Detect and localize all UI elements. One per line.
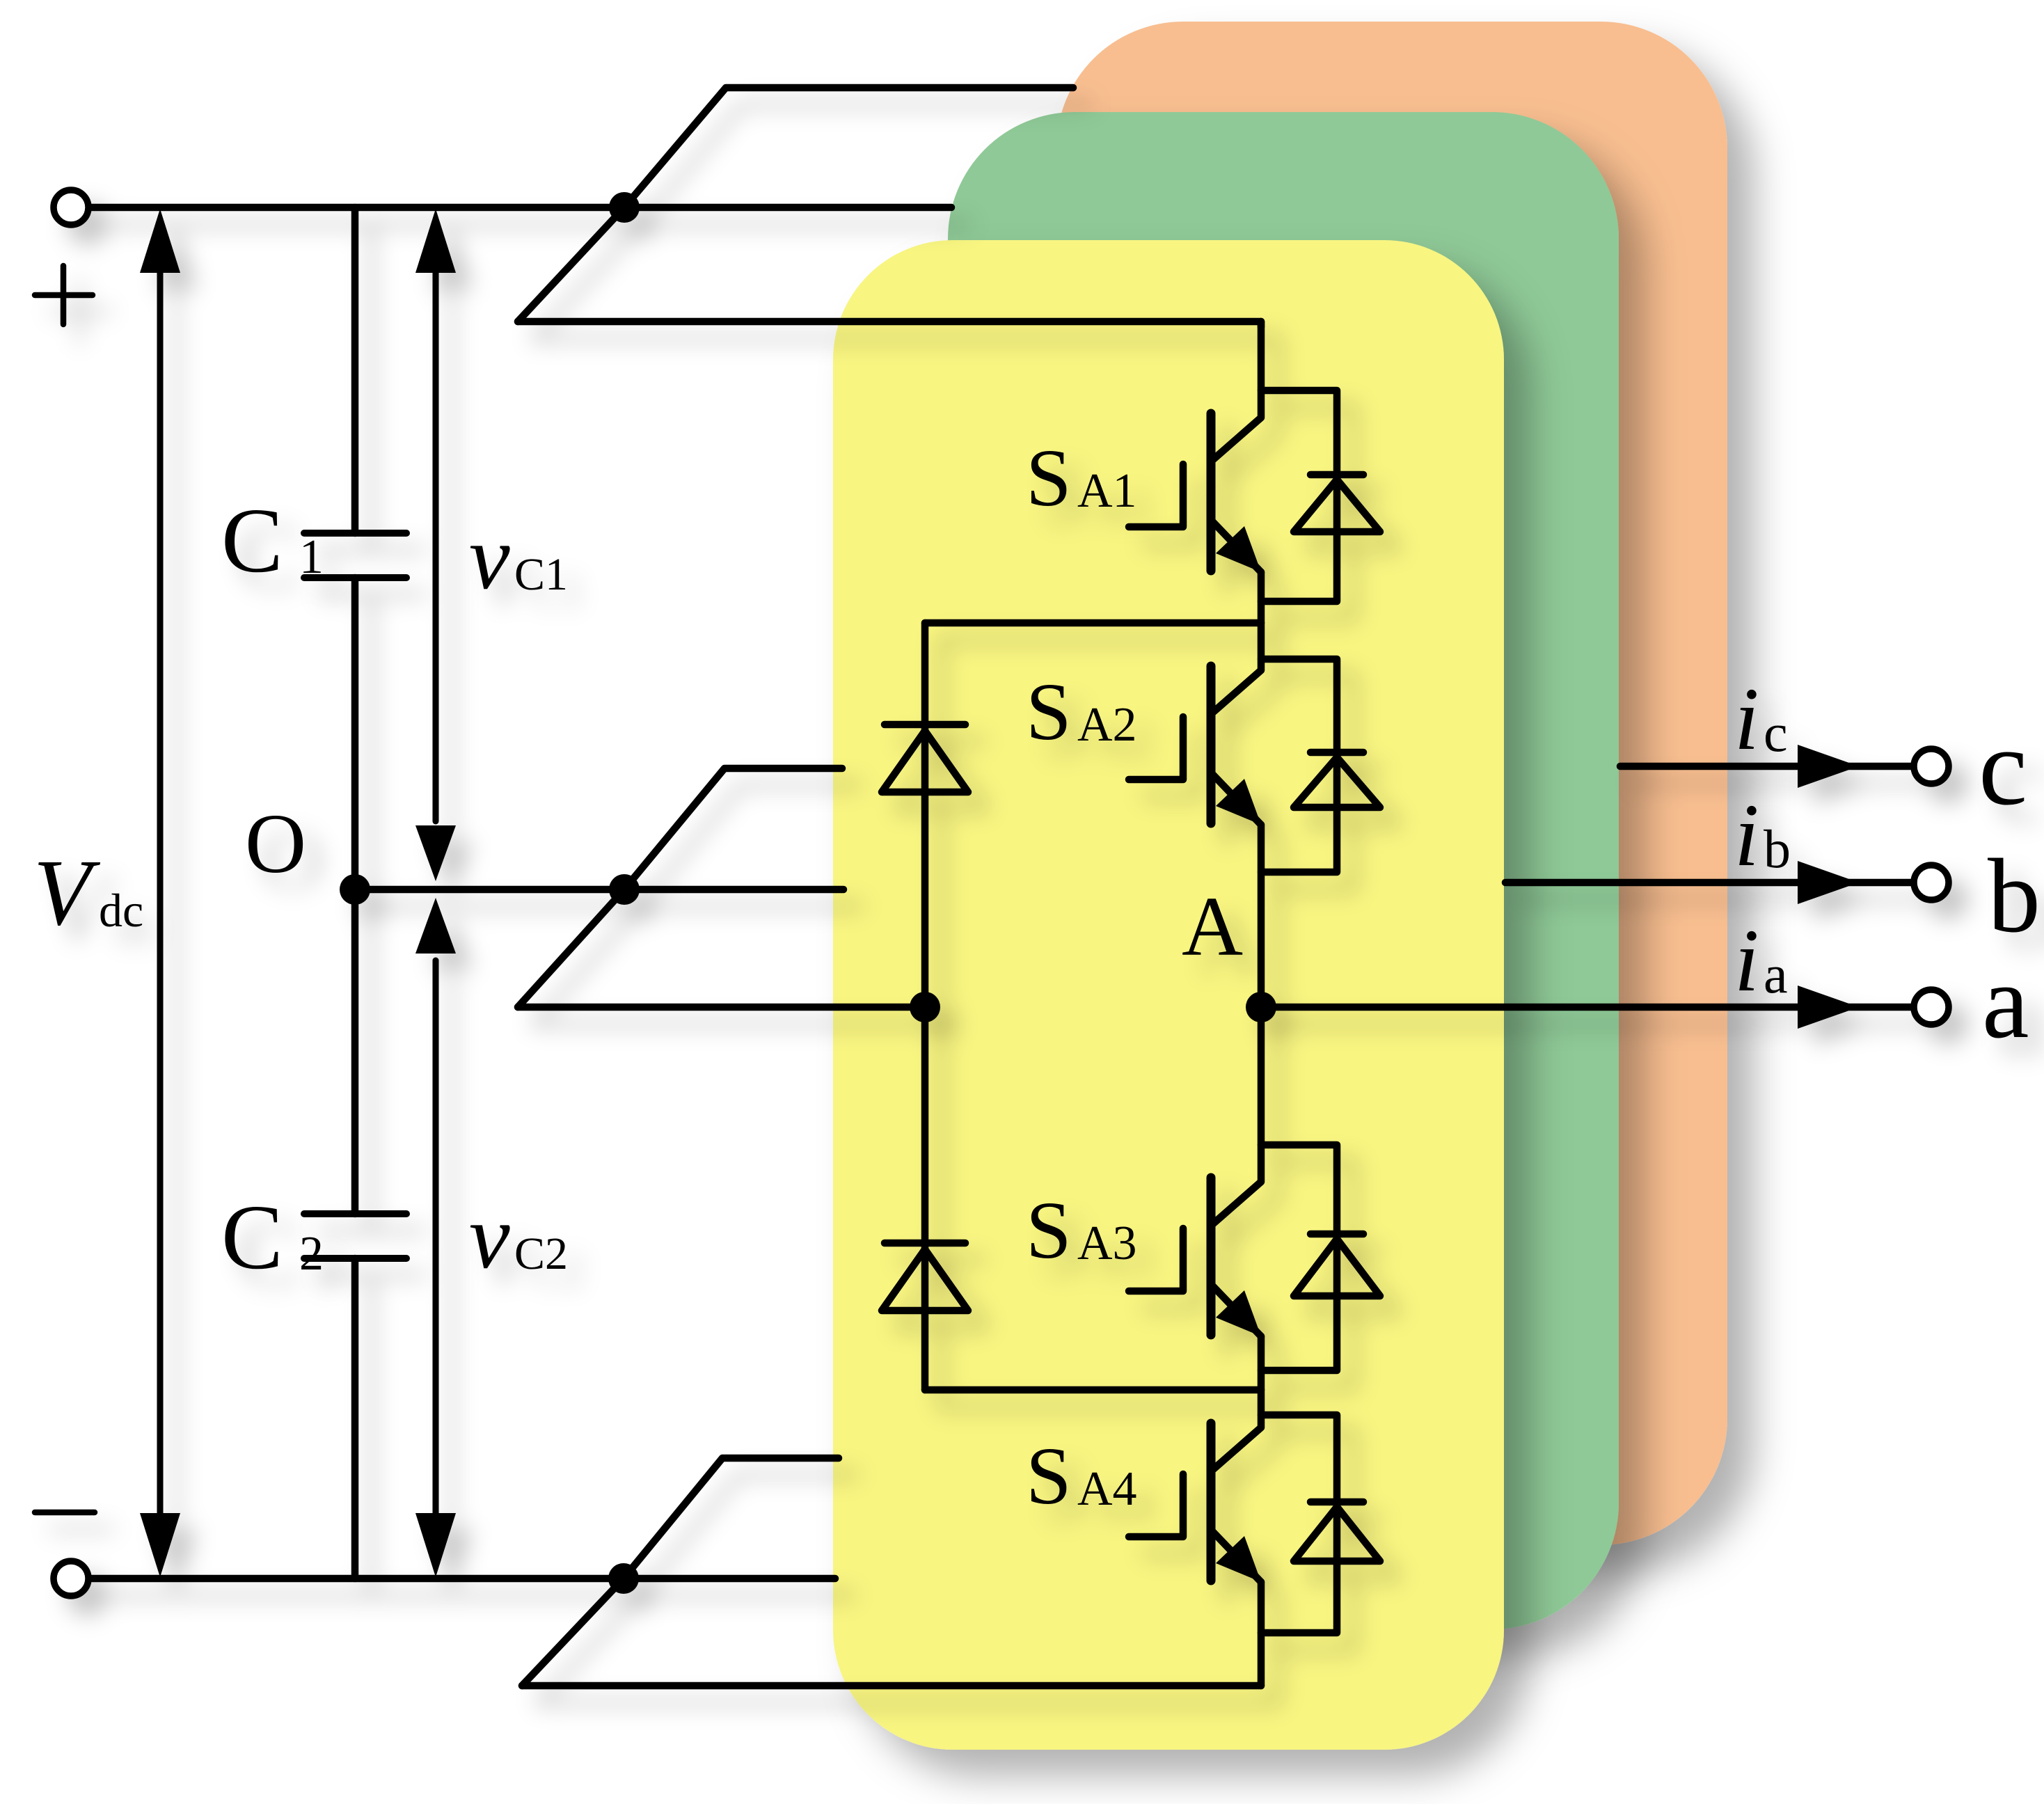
transistor SA2 emitter wire: [1258, 825, 1265, 1007]
svg-text:C1: C1: [514, 549, 568, 600]
diode DSA4 triangle: [1294, 1507, 1380, 1561]
wire phase A top rail corner down: [1258, 322, 1265, 327]
diode D5 (upper clamp) cathode bar: [885, 721, 965, 729]
wire phase A top rail: [518, 318, 1261, 326]
transistor SA1 emitter lead: [1211, 520, 1261, 572]
node O dot: [340, 874, 370, 905]
transistor SA3 emitter arrowhead: [1216, 1290, 1261, 1336]
wire clamp lower junction: [925, 1386, 1261, 1394]
wire top bus (phase B rail): [89, 204, 951, 212]
svg-text:c: c: [1979, 706, 2027, 828]
diode DSA3 antiparallel branch wire: [1261, 1145, 1337, 1370]
wire output a: [1261, 1004, 1912, 1011]
diode DSA2 triangle: [1294, 757, 1380, 807]
transistor SA1 emitter arrowhead: [1216, 526, 1261, 572]
wire diagonal to phase A top rail: [518, 207, 624, 322]
diode DSA1 cathode bar: [1310, 471, 1363, 479]
transistor SA3 emitter wire: [1258, 1336, 1265, 1390]
phase B panel (green): [948, 112, 1619, 1629]
diode DSA2 cathode bar: [1310, 749, 1363, 757]
wire diagonal to phase C top rail: [624, 88, 1073, 207]
terminal + (top left): [54, 190, 88, 225]
wire C1 to node O: [351, 578, 359, 889]
svg-text:b: b: [1988, 837, 2041, 954]
svg-text:A1: A1: [1077, 464, 1137, 518]
wire C2 to bottom bus: [351, 1258, 359, 1578]
diode DSA1 triangle: [1294, 480, 1380, 532]
transistor SA4 gate bar: [1207, 1423, 1216, 1581]
wire phase A bottom rail: [522, 1682, 1261, 1690]
svg-text:c: c: [1764, 702, 1788, 763]
transistor SA4 collector lead: [1211, 1390, 1261, 1471]
svg-text:C: C: [221, 1185, 283, 1288]
svg-text:A: A: [1182, 880, 1243, 974]
svg-text:i: i: [1734, 786, 1759, 885]
svg-text:b: b: [1764, 818, 1791, 879]
svg-text:A3: A3: [1077, 1217, 1137, 1270]
diode DSA3 cathode bar: [1310, 1231, 1363, 1238]
wire phase A mid rail (to clamp midpoint): [518, 1004, 925, 1011]
phase A panel (yellow): [833, 240, 1504, 1750]
transistor SA2 gate lead: [1129, 717, 1183, 780]
diode DSA4 antiparallel branch wire: [1261, 1415, 1337, 1633]
transistor SA4 emitter lead: [1211, 1530, 1261, 1582]
arrow ia: [1798, 986, 1859, 1029]
svg-text:dc: dc: [99, 884, 143, 937]
plus label: [35, 266, 93, 324]
svg-text:V: V: [33, 841, 101, 945]
transistor SA4 gate lead: [1129, 1474, 1183, 1537]
transistor SA1 emitter wire: [1258, 572, 1265, 623]
junction top bus: [609, 192, 640, 223]
wire diagonal to phase A bottom rail: [522, 1578, 624, 1686]
transistor SA2 gate bar: [1207, 666, 1216, 823]
svg-text:A2: A2: [1077, 698, 1137, 752]
wire clamp diode branch upper: [921, 623, 929, 1007]
svg-text:A4: A4: [1077, 1462, 1137, 1516]
transistor SA1 gate lead: [1129, 464, 1183, 527]
wire clamp upper junction: [925, 619, 1261, 627]
arrow ic: [1798, 745, 1859, 788]
diode DSA3 triangle: [1294, 1239, 1380, 1296]
terminal b: [1914, 865, 1949, 900]
diode D5 (upper clamp) triangle: [882, 731, 968, 792]
svg-text:a: a: [1982, 943, 2029, 1060]
svg-text:i: i: [1734, 670, 1759, 768]
diode D6 (lower clamp) triangle: [882, 1249, 968, 1311]
diode DSA4 cathode bar: [1310, 1498, 1363, 1506]
transistor SA3 emitter lead: [1211, 1284, 1261, 1336]
svg-text:v: v: [469, 1185, 510, 1288]
svg-text:S: S: [1026, 432, 1072, 523]
svg-text:S: S: [1026, 1185, 1072, 1276]
svg-text:O: O: [245, 797, 306, 891]
terminal - (bottom left): [54, 1561, 88, 1596]
terminal a: [1914, 990, 1949, 1024]
wire diagonal to phase A mid rail: [518, 889, 624, 1007]
wire diagonal to phase C mid rail: [624, 768, 842, 889]
vC2 measuring arrow: [433, 960, 439, 1538]
arrow ib: [1798, 861, 1859, 904]
svg-text:v: v: [469, 506, 510, 608]
transistor SA3 collector lead: [1211, 1007, 1261, 1226]
svg-text:1: 1: [299, 530, 324, 584]
wire output b: [1505, 879, 1912, 887]
svg-text:S: S: [1026, 1430, 1072, 1521]
wire node O to C2: [351, 889, 359, 1214]
svg-text:S: S: [1026, 666, 1072, 757]
wire capacitor branch upper: [351, 207, 359, 533]
Vdc measuring arrow: [157, 251, 164, 1538]
capacitor C2: [304, 1214, 406, 1258]
minus label: [35, 1510, 95, 1516]
diode DSA2 antiparallel branch wire: [1261, 659, 1337, 872]
junction bottom bus: [608, 1563, 639, 1594]
transistor SA4 emitter wire: [1258, 1582, 1265, 1686]
transistor SA4 emitter arrowhead: [1216, 1536, 1261, 1582]
wire node O bus (phase B mid): [355, 886, 843, 894]
transistor SA1 collector lead: [1211, 322, 1261, 461]
transistor SA2 emitter lead: [1211, 773, 1261, 825]
transistor SA3 gate bar: [1207, 1178, 1216, 1335]
svg-text:a: a: [1764, 944, 1788, 1004]
vC1 measuring arrow: [433, 251, 439, 821]
node A dot: [1246, 992, 1276, 1022]
transistor SA3 gate lead: [1129, 1228, 1183, 1291]
svg-text:i: i: [1734, 911, 1759, 1010]
wire bottom bus (phase B rail): [89, 1575, 835, 1583]
svg-text:C: C: [221, 489, 283, 592]
svg-text:C2: C2: [514, 1228, 568, 1279]
terminal c: [1914, 749, 1949, 784]
wire diagonal to phase C bottom rail: [624, 1458, 839, 1578]
capacitor C1: [304, 533, 406, 578]
wire output c: [1620, 763, 1912, 770]
transistor SA2 collector lead: [1211, 623, 1261, 714]
svg-text:2: 2: [299, 1227, 324, 1281]
transistor SA2 emitter arrowhead: [1216, 779, 1261, 825]
clamp mid junction dot: [910, 992, 940, 1022]
diode D6 (lower clamp) cathode bar: [885, 1240, 965, 1247]
transistor SA1 gate bar: [1207, 413, 1216, 571]
diode DSA1 antiparallel branch wire: [1261, 390, 1337, 601]
junction mid bus: [609, 874, 640, 905]
phase C panel (orange): [1056, 22, 1727, 1545]
wire clamp diode branch lower: [921, 1007, 929, 1390]
